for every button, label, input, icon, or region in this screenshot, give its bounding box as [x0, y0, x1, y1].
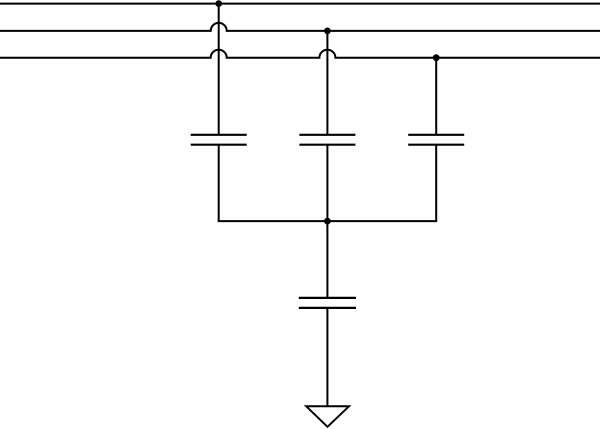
wire: phase bus line 1 (top)	[0, 3, 600, 5]
wire: vertical lead from line 1 to capacitor C1 top plate	[218, 4, 220, 135]
capacitor C3 (phase 3 to neutral)	[408, 135, 464, 145]
capacitor C4 (neutral to ground)	[299, 298, 356, 308]
capacitor C1 (phase 1 to neutral)	[191, 135, 247, 145]
wire: vertical lead from capacitor C4 bottom plate to ground	[326, 308, 328, 406]
wire: vertical lead from common bus to capacitor C4 top plate	[326, 221, 328, 298]
capacitor C2 (phase 2 to neutral)	[299, 135, 355, 145]
junction: vertical 1 on phase line 1	[215, 0, 222, 7]
wire: vertical lead from line 3 to capacitor C3 top plate	[435, 58, 437, 135]
wire: vertical lead from capacitor C2 bottom plate to common bus	[326, 145, 328, 221]
wire: phase bus line 3 with hops over verticals at x=218.7 and x=327.4	[0, 50, 600, 58]
junction: vertical 3 on phase line 3	[433, 54, 440, 61]
wire: vertical lead from line 2 to capacitor C2 top plate	[326, 31, 328, 135]
wire: vertical lead from capacitor C1 bottom plate to common bus	[218, 145, 220, 221]
junction: vertical 2 on phase line 2	[324, 28, 331, 35]
wire: vertical lead from capacitor C3 bottom plate to common bus	[435, 145, 437, 221]
wire: common neutral bus joining capacitor bottoms	[218, 220, 438, 222]
wire: phase bus line 2 with hop over vertical at x=218.7	[0, 23, 600, 31]
ground	[306, 406, 349, 427]
junction: center vertical on common neutral bus	[324, 218, 331, 225]
